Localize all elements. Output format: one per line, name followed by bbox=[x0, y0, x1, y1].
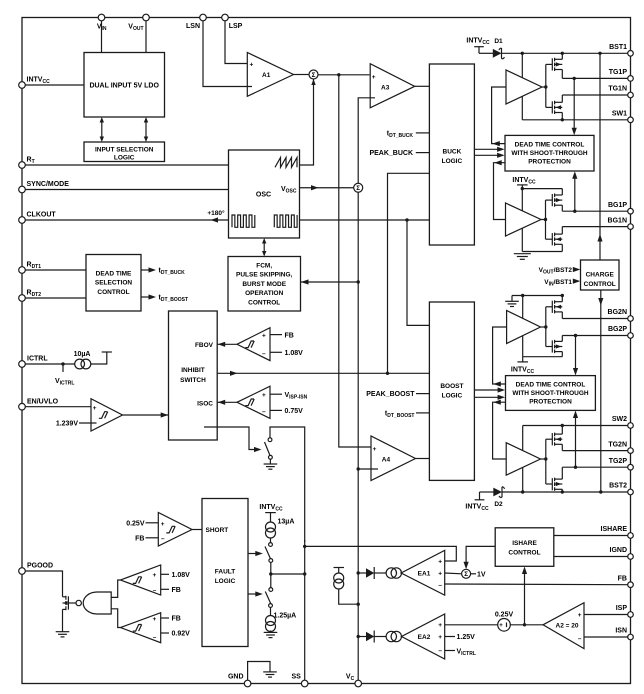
wire BST1 rail bbox=[502, 52, 628, 54]
ground PGOOD FET bbox=[56, 632, 70, 637]
label FB to SHORT minus bbox=[135, 535, 158, 542]
wire A4 out to BOOST LOGIC bbox=[416, 458, 430, 460]
svg-text:SS: SS bbox=[291, 674, 301, 681]
wire TG1P line bbox=[562, 77, 628, 79]
svg-text:Σ: Σ bbox=[312, 72, 316, 79]
wire DTC2 output to driver4 bbox=[493, 400, 507, 459]
svg-text:SW1: SW1 bbox=[612, 111, 627, 118]
node clock boost branch bbox=[405, 218, 408, 221]
comparator FBOV bbox=[237, 328, 270, 361]
wire tee to A4 minus bbox=[358, 468, 378, 470]
wire RT to OSC bbox=[25, 164, 228, 166]
pin PGOOD bbox=[19, 563, 53, 575]
wire BST1 riser to CHARGE CONTROL bbox=[597, 53, 602, 260]
svg-text:ISP: ISP bbox=[616, 605, 628, 612]
svg-text:–: – bbox=[262, 408, 266, 415]
svg-text:BOOST: BOOST bbox=[440, 383, 463, 390]
switch fault 1 bbox=[265, 543, 273, 563]
label 1.25V EA2 bbox=[445, 634, 475, 641]
wire LSN down to A1 minus bbox=[203, 21, 252, 87]
svg-text:BST2: BST2 bbox=[609, 483, 627, 490]
svg-text:D2: D2 bbox=[494, 501, 503, 508]
wire EA1 minus to FB pin bbox=[445, 583, 628, 586]
svg-text:CONTROL: CONTROL bbox=[584, 281, 616, 288]
svg-text:+: + bbox=[262, 392, 266, 399]
wire INHIBIT output to logic blocks bbox=[217, 371, 429, 376]
svg-text:BG1P: BG1P bbox=[608, 202, 627, 209]
svg-text:SWITCH: SWITCH bbox=[180, 377, 206, 384]
svg-text:EA1: EA1 bbox=[418, 571, 431, 578]
svg-text:BURST MODE: BURST MODE bbox=[242, 281, 286, 288]
svg-text:TG1N: TG1N bbox=[608, 86, 627, 93]
wire VOSC from OSC to summer S2 bbox=[300, 185, 354, 190]
wire PGOOD pin to pull-down FET bbox=[25, 571, 62, 597]
label 0.25V to SHORT plus bbox=[126, 520, 158, 527]
svg-text:+: + bbox=[262, 333, 266, 340]
INTVCC tap for D2 bbox=[465, 492, 489, 512]
pin RDT1 bbox=[19, 262, 42, 274]
wire A2 minus to ISN bbox=[584, 636, 628, 638]
block FCM PULSE SKIPPING BURST MODE OPERATION CONTROL bbox=[228, 257, 301, 312]
wire EA1 mid plus to summer S3 bbox=[445, 572, 462, 575]
label VISP-ISN ISOC plus bbox=[270, 392, 308, 401]
wire clock branch to BOOST LOGIC bbox=[407, 220, 429, 325]
pin EN/UVLO bbox=[19, 398, 59, 410]
block DEAD TIME SELECTION CONTROL bbox=[86, 255, 141, 312]
wire INHIBIT branch up into BUCK LOGIC bbox=[388, 173, 430, 373]
svg-text:TG1P: TG1P bbox=[609, 69, 628, 76]
wire TG1P node down into DTC1 bbox=[572, 78, 577, 135]
svg-text:1.25V: 1.25V bbox=[457, 634, 476, 641]
block DEAD TIME CONTROL 1 bbox=[505, 135, 594, 171]
svg-text:+: + bbox=[438, 559, 442, 566]
block CHARGE CONTROL bbox=[581, 260, 620, 290]
driver2 output node bbox=[541, 219, 546, 221]
wire BG2P node down into DTC2 bbox=[573, 336, 578, 376]
wire A3 out to BUCK LOGIC bbox=[415, 85, 430, 87]
label 1.08V FBOV minus bbox=[270, 350, 303, 357]
label 0.92V comp2 minus bbox=[161, 631, 190, 638]
wires BOOST LOGIC to DTC2 bbox=[474, 387, 505, 400]
wire FBOV comp to box bbox=[217, 342, 237, 347]
svg-text:A2 = 20: A2 = 20 bbox=[556, 622, 579, 629]
transistor PGOOD pulldown bbox=[63, 596, 69, 610]
pin VC bbox=[346, 674, 362, 687]
current source 13uA bbox=[266, 519, 295, 539]
diode EA2 output bbox=[358, 631, 374, 643]
node FCM tee bbox=[357, 280, 360, 283]
svg-text:1V: 1V bbox=[477, 572, 486, 579]
svg-text:PGOOD: PGOOD bbox=[27, 563, 53, 570]
label -1V bbox=[471, 572, 486, 579]
pin VOUT bbox=[128, 14, 149, 32]
wire OSC sawtooth up into S1 bbox=[300, 79, 316, 165]
summing junction S3 bbox=[462, 569, 471, 578]
transistor PMOS top TG1P bbox=[552, 58, 562, 71]
diode D2 bbox=[480, 487, 505, 509]
INTVCC tap 13uA source bbox=[259, 504, 283, 522]
comparator PGOOD low FB bbox=[121, 613, 161, 643]
svg-text:+: + bbox=[373, 446, 377, 453]
current source EA2 bbox=[374, 631, 401, 641]
INTVCC tap for D1 bbox=[466, 38, 490, 54]
pin INTVCC bbox=[19, 77, 50, 89]
pin ISP bbox=[616, 605, 634, 617]
svg-text:PROTECTION: PROTECTION bbox=[529, 398, 572, 405]
pin IGND bbox=[610, 547, 634, 559]
svg-text:DEAD TIME: DEAD TIME bbox=[96, 270, 132, 277]
gate driver 4 bbox=[506, 443, 540, 476]
svg-text:DEAD TIME CONTROL: DEAD TIME CONTROL bbox=[515, 141, 585, 148]
wire INHIBIT switch control bbox=[204, 427, 256, 450]
error amp EA2 bbox=[402, 614, 445, 659]
svg-text:TG2N: TG2N bbox=[608, 441, 627, 448]
svg-text:–: – bbox=[262, 350, 266, 357]
current source EA1 bbox=[374, 568, 401, 578]
pin GND bbox=[228, 674, 251, 687]
block BUCK LOGIC bbox=[429, 64, 474, 245]
block FAULT LOGIC bbox=[202, 499, 248, 647]
wire SYNC/MODE to OSC bbox=[25, 189, 228, 191]
pin SS bbox=[291, 674, 308, 687]
wire CHARGE CONTROL down to BST2 bbox=[598, 290, 603, 492]
wire BG1P node up into DTC1 bbox=[572, 171, 577, 211]
driver1 output node bbox=[542, 86, 546, 88]
svg-text:WITH SHOOT-THROUGH: WITH SHOOT-THROUGH bbox=[512, 390, 588, 397]
svg-text:FB: FB bbox=[172, 587, 181, 594]
block DUAL INPUT 5V LDO bbox=[84, 53, 165, 118]
gate driver 2 bbox=[506, 203, 542, 236]
pin RDT2 bbox=[19, 290, 42, 302]
node A4 minus tee bbox=[357, 467, 360, 470]
svg-text:GND: GND bbox=[228, 674, 244, 681]
sawtooth waveform glyph bbox=[275, 158, 297, 168]
wire TG2P node up into DTC2 bbox=[573, 411, 578, 468]
svg-text:+: + bbox=[250, 61, 254, 68]
supply tap bar bbox=[102, 351, 112, 353]
wire SS riser bbox=[304, 540, 306, 680]
pin BST2 bbox=[609, 483, 633, 495]
svg-text:0.75V: 0.75V bbox=[285, 408, 304, 415]
wire S2 up to A3 minus bbox=[358, 98, 375, 183]
summing junction S1 bbox=[309, 70, 318, 79]
output arrow tDT_BOOST bbox=[141, 294, 188, 303]
wire BG1N line bbox=[562, 226, 628, 228]
pin LSN bbox=[186, 14, 206, 30]
svg-text:+: + bbox=[499, 623, 503, 629]
wire GND pin to ground bbox=[248, 662, 277, 681]
wire CLKOUT to OSC with +180 arrow bbox=[25, 209, 228, 223]
wire ground rail BG2 bbox=[512, 295, 562, 297]
svg-text:SW2: SW2 bbox=[612, 416, 627, 423]
wire TG2P line bbox=[562, 466, 628, 468]
gate driver 3 bbox=[507, 311, 541, 344]
pin TG1P bbox=[609, 69, 634, 81]
wire A1 output to summer S1 bbox=[294, 74, 310, 76]
ground BG1 cell bbox=[514, 254, 531, 260]
wire INTVCC rail BG1 bbox=[522, 188, 562, 190]
svg-text:CONTROL: CONTROL bbox=[97, 289, 129, 296]
wire BG2N line bbox=[562, 318, 628, 320]
wire EA1 plus loop from SS riser bbox=[305, 546, 457, 561]
node A3plus branch bbox=[337, 73, 340, 76]
diode D1 bbox=[479, 38, 505, 59]
svg-text:+: + bbox=[153, 572, 157, 579]
wire source to supply tap bbox=[91, 352, 107, 364]
comparator EN/UVLO bbox=[91, 399, 123, 431]
current source 10uA bbox=[74, 351, 91, 369]
label FB comp minus bbox=[161, 587, 181, 594]
wire ground rail BG1 bbox=[522, 251, 562, 253]
wire RDT2 to DTSC bbox=[25, 297, 86, 299]
wire LSP down to A1 plus bbox=[225, 21, 247, 64]
wire S1 output to A3 plus with branch node bbox=[318, 74, 370, 76]
block BOOST LOGIC bbox=[429, 302, 474, 480]
svg-text:13µA: 13µA bbox=[278, 519, 295, 526]
svg-text:BUCK: BUCK bbox=[443, 149, 462, 156]
wire DTC2 output to driver3 bbox=[493, 327, 507, 387]
pin CLKOUT bbox=[19, 212, 57, 224]
pin BG1N bbox=[608, 217, 634, 229]
svg-text:ISHARE: ISHARE bbox=[601, 526, 628, 533]
svg-text:ISHARE: ISHARE bbox=[512, 540, 537, 547]
svg-text:OSC: OSC bbox=[256, 191, 271, 198]
block INPUT SELECTION LOGIC bbox=[84, 142, 165, 162]
svg-text:1.08V: 1.08V bbox=[172, 572, 191, 579]
pin BG2P bbox=[608, 326, 633, 338]
svg-text:FB: FB bbox=[618, 575, 627, 582]
comparator PGOOD high FB bbox=[121, 565, 161, 595]
transistor PMOS BG2P bbox=[552, 340, 562, 353]
node EA1 on VC line bbox=[357, 571, 360, 574]
svg-text:1.239V: 1.239V bbox=[56, 420, 79, 427]
wire BST2 rail bbox=[502, 491, 628, 493]
comparator ISOC bbox=[237, 386, 270, 418]
block ISHARE CONTROL bbox=[495, 528, 554, 567]
pin SW1 bbox=[612, 111, 633, 123]
svg-text:FAULT: FAULT bbox=[215, 568, 235, 575]
svg-text:LSN: LSN bbox=[186, 23, 200, 30]
svg-text:BG1N: BG1N bbox=[608, 217, 627, 224]
wire EA2 top plus to 0.25V source bbox=[445, 624, 498, 626]
svg-text:FCM,: FCM, bbox=[256, 263, 272, 270]
svg-text:PEAK_BOOST: PEAK_BOOST bbox=[366, 391, 415, 398]
svg-text:EN/UVLO: EN/UVLO bbox=[27, 398, 59, 405]
svg-text:1.08V: 1.08V bbox=[285, 350, 304, 357]
bidirectional arrow LDO-ISL left bbox=[100, 117, 104, 142]
op-amp A4 bbox=[371, 436, 416, 481]
ground ISOC switch bbox=[264, 464, 278, 469]
wire FAULT LOGIC to switch1 bbox=[248, 551, 263, 556]
svg-text:LOGIC: LOGIC bbox=[442, 393, 463, 400]
wire comparator out to INHIBIT SWITCH bbox=[123, 412, 169, 417]
wire S2 down to A4 minus and VC pin bbox=[357, 192, 359, 680]
svg-text:FB: FB bbox=[172, 616, 181, 623]
svg-text:0.25V: 0.25V bbox=[495, 612, 514, 619]
svg-text:BST1: BST1 bbox=[609, 44, 627, 51]
svg-text:BG2N: BG2N bbox=[608, 309, 627, 316]
wire A2 plus to ISP bbox=[584, 614, 628, 616]
transistor NMOS TG2N bbox=[552, 433, 562, 446]
svg-text:INHIBIT: INHIBIT bbox=[181, 367, 205, 374]
svg-text:+: + bbox=[153, 616, 157, 623]
pin ISN bbox=[615, 628, 633, 640]
label tDT_BOOST input bbox=[385, 410, 429, 419]
svg-text:+: + bbox=[438, 634, 442, 641]
svg-text:BG2P: BG2P bbox=[608, 326, 627, 333]
label PEAK_BOOST input bbox=[366, 391, 429, 398]
label FB FBOV plus bbox=[270, 332, 294, 339]
svg-text:ICTRL: ICTRL bbox=[27, 356, 48, 363]
switch ISOC pulldown bbox=[265, 438, 273, 459]
svg-text:10µA: 10µA bbox=[74, 351, 91, 358]
node EA2 on VC line bbox=[357, 635, 360, 638]
wire OSC clock to BUCK LOGIC bbox=[300, 219, 430, 221]
svg-text:SHORT: SHORT bbox=[206, 527, 229, 534]
ground 1.25uA bbox=[264, 631, 278, 638]
output arrow tDT_BUCK bbox=[141, 267, 185, 276]
pin BST1 bbox=[609, 44, 633, 56]
pin SYNC/MODE bbox=[19, 181, 70, 193]
wire VOUT pin to LDO bbox=[145, 21, 147, 53]
label VIN/BST1 input bbox=[544, 279, 580, 288]
op-amp A3 bbox=[370, 64, 415, 108]
voltage source 0.25V bbox=[495, 612, 514, 631]
svg-text:SELECTION: SELECTION bbox=[95, 280, 133, 287]
svg-text:LSP: LSP bbox=[229, 23, 243, 30]
wire BG2P line bbox=[562, 335, 628, 337]
NAND gate mirrored bbox=[76, 592, 111, 614]
pin ISHARE bbox=[601, 526, 634, 538]
svg-text:+180°: +180° bbox=[207, 209, 225, 217]
wire RDT1 to DTSC bbox=[25, 269, 86, 271]
error amp EA1 bbox=[401, 550, 445, 595]
wire VIN pin to LDO bbox=[101, 21, 103, 53]
svg-text:D1: D1 bbox=[494, 38, 503, 45]
svg-text:–: – bbox=[153, 634, 157, 641]
svg-text:–: – bbox=[438, 648, 442, 655]
wire TG1N line bbox=[562, 94, 628, 96]
diode EA1 output bbox=[358, 567, 374, 579]
svg-text:CLKOUT: CLKOUT bbox=[27, 212, 57, 219]
svg-text:OPERATION: OPERATION bbox=[245, 290, 283, 297]
svg-text:+: + bbox=[161, 521, 165, 528]
switch fault 2 bbox=[265, 588, 272, 608]
svg-text:A3: A3 bbox=[381, 85, 390, 92]
comparator SHORT detect bbox=[158, 513, 192, 547]
svg-text:+: + bbox=[438, 622, 442, 629]
label 1.239V with wire to minus bbox=[56, 420, 97, 427]
wire ISHARE output line bbox=[554, 535, 628, 537]
wire BG1P line bbox=[562, 210, 628, 212]
svg-text:1.25µA: 1.25µA bbox=[274, 612, 297, 619]
bidirectional arrow LDO-ISL right bbox=[144, 117, 148, 142]
svg-text:Σ: Σ bbox=[464, 571, 468, 578]
pin FB bbox=[618, 575, 634, 587]
svg-text:DEAD TIME CONTROL: DEAD TIME CONTROL bbox=[516, 381, 586, 388]
label FB comp2 plus bbox=[161, 616, 181, 623]
INTVCC tap BG1 driver bbox=[512, 177, 536, 188]
svg-text:CONTROL: CONTROL bbox=[248, 299, 280, 306]
NAND input wires to window comparators bbox=[111, 580, 120, 597]
svg-text:LOGIC: LOGIC bbox=[114, 154, 135, 161]
svg-text:EA2: EA2 bbox=[418, 634, 431, 641]
wire INTVCC rail BG2 bbox=[523, 356, 563, 358]
pin TG2P bbox=[609, 458, 634, 470]
pin ICTRL bbox=[19, 356, 49, 368]
wire EN/UVLO pin to comparator plus bbox=[25, 406, 91, 408]
pin RT bbox=[19, 157, 35, 169]
wire INTVCC pin to LDO bbox=[25, 84, 84, 86]
wire source to A2 bbox=[510, 624, 543, 626]
wire ISHARE CONTROL to S3 bbox=[464, 546, 496, 569]
svg-text:Σ: Σ bbox=[356, 185, 360, 192]
svg-text:WITH SHOOT-THROUGH: WITH SHOOT-THROUGH bbox=[511, 150, 587, 157]
wire source to switch1 bbox=[270, 538, 272, 543]
block OSC bbox=[229, 150, 300, 238]
svg-text:IGND: IGND bbox=[610, 547, 628, 554]
svg-text:+: + bbox=[578, 612, 582, 619]
wire branch down to A4 plus bbox=[339, 75, 371, 447]
svg-text:0.25V: 0.25V bbox=[126, 520, 145, 527]
pin BG2N bbox=[608, 309, 634, 321]
current source VC clamp bbox=[334, 573, 344, 589]
transistor PMOS BG1P bbox=[552, 194, 562, 207]
svg-text:INPUT SELECTION: INPUT SELECTION bbox=[95, 146, 154, 153]
wire IGND output line bbox=[554, 556, 628, 558]
wire ISOC comp to box bbox=[217, 400, 237, 405]
wire DTC1 output to driver1 bbox=[492, 87, 506, 146]
svg-text:FBOV: FBOV bbox=[195, 342, 214, 349]
svg-text:–: – bbox=[161, 536, 165, 543]
wires BUCK LOGIC to DTC1 bbox=[474, 147, 504, 158]
pin LSP bbox=[222, 14, 243, 30]
transistor NMOS BG1N bbox=[552, 233, 562, 246]
square wave glyph left bbox=[232, 215, 255, 227]
amp A2 = 20 bbox=[543, 603, 584, 649]
svg-text:–: – bbox=[438, 582, 442, 589]
svg-text:+: + bbox=[438, 571, 442, 578]
wire switch1 to SS node bbox=[270, 562, 272, 574]
driver4 output node bbox=[541, 458, 546, 460]
svg-text:FB: FB bbox=[285, 332, 294, 339]
svg-text:PULSE SKIPPING,: PULSE SKIPPING, bbox=[236, 272, 293, 279]
current source 1.25uA bbox=[266, 607, 297, 631]
label VOUT/BST2 input bbox=[539, 267, 581, 276]
wire FET gate to NAND bubble bbox=[68, 602, 76, 604]
svg-text:PEAK_BUCK: PEAK_BUCK bbox=[369, 150, 413, 157]
stub VICTRL bbox=[62, 364, 64, 372]
pin TG2N bbox=[608, 441, 633, 453]
label VICTRL EA2 bbox=[445, 649, 476, 658]
svg-text:–: – bbox=[578, 636, 582, 643]
svg-text:FB: FB bbox=[135, 535, 144, 542]
svg-text:LOGIC: LOGIC bbox=[215, 578, 236, 585]
transistor NMOS TG1N bbox=[552, 101, 562, 114]
wire SS node to switch2 bbox=[270, 574, 272, 588]
svg-text:LOGIC: LOGIC bbox=[442, 158, 463, 165]
INTVCC tap BG2 bbox=[511, 357, 535, 376]
wire FAULT LOGIC to switch2 bbox=[248, 591, 263, 596]
bidirectional arrow OSC-FCM bbox=[262, 238, 266, 257]
block DEAD TIME CONTROL 2 bbox=[506, 376, 596, 411]
svg-text:SYNC/MODE: SYNC/MODE bbox=[27, 181, 70, 188]
wire DTC1 output to driver2 bbox=[494, 160, 506, 219]
svg-text:–: – bbox=[153, 587, 157, 594]
wire TG2N line bbox=[562, 450, 628, 452]
wire clamp to VC node bbox=[339, 589, 359, 604]
wire SW1 line bbox=[522, 119, 628, 121]
